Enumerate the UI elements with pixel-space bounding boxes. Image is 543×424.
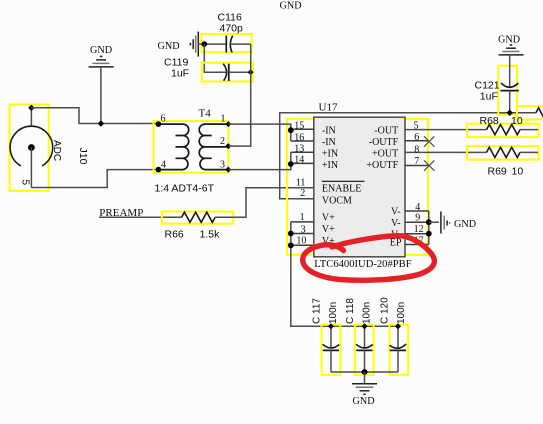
svg-text:12: 12 — [414, 224, 424, 235]
junction (pin 9 V-) — [426, 219, 432, 225]
svg-text:3: 3 — [301, 225, 306, 236]
svg-text:470p: 470p — [220, 23, 244, 35]
pin 7 (no connect) — [405, 165, 429, 167]
pin 9 (V-) — [405, 221, 429, 223]
capacitor C119 — [202, 63, 253, 82]
svg-text:5: 5 — [414, 121, 419, 132]
wire (J10 top to T4 pin 6) — [31, 108, 158, 124]
node (C118 top terminal diamond) — [362, 323, 368, 329]
svg-text:6: 6 — [161, 113, 166, 124]
svg-text:EP: EP — [390, 238, 402, 249]
wire (C118 top lead) — [364, 326, 366, 347]
resistor (partial, right edge on VOCM line) — [517, 106, 543, 119]
svg-text:GND: GND — [353, 396, 375, 407]
wire (caps right node down to T4 pin 2) — [228, 44, 250, 146]
wire (GND4 stem) — [364, 372, 366, 384]
svg-text:11: 11 — [296, 177, 306, 188]
resistor R66 — [162, 212, 233, 224]
svg-text:ADC: ADC — [51, 140, 62, 161]
wire (C117 top lead) — [330, 326, 332, 347]
svg-text:R66: R66 — [165, 229, 184, 241]
svg-text:VOCM: VOCM — [322, 196, 352, 207]
overline of ENABLE — [322, 180, 365, 182]
wire (bypass caps bottom bus) — [331, 371, 398, 373]
resistor R68 — [467, 124, 539, 137]
wire (C120 top lead) — [397, 326, 399, 347]
no-connect X pin 6 — [424, 136, 434, 146]
wire (C119 right plate out) — [229, 71, 251, 73]
svg-text:LTC6400IUD-20#PBF: LTC6400IUD-20#PBF — [314, 259, 411, 270]
svg-text:T4: T4 — [199, 108, 212, 120]
wire (V+ strap down to bypass caps) — [291, 222, 398, 326]
wire (C118 bottom lead) — [364, 350, 366, 372]
node (T4 pin 3 terminal) — [225, 167, 231, 173]
svg-text:10: 10 — [296, 235, 306, 246]
svg-text:-IN: -IN — [322, 125, 336, 136]
pin 5 (-OUT) wire to R68 — [405, 129, 487, 131]
svg-text:15: 15 — [294, 121, 304, 132]
pin 1 — [291, 221, 314, 223]
wire (VOCM net: C121 node across top and down to pin 2) — [280, 113, 536, 199]
svg-text:8: 8 — [414, 144, 419, 155]
svg-text:GND: GND — [158, 41, 180, 52]
wire (T4 pin 1 to -IN pins) — [228, 124, 290, 141]
primary winding — [158, 124, 188, 170]
capacitor C121 — [498, 55, 519, 115]
resistor R69 — [467, 146, 539, 159]
wire (J10 center pin down) — [30, 148, 32, 188]
svg-text:GND: GND — [498, 34, 520, 45]
wire (C120 bottom lead) — [397, 350, 399, 372]
wire (C117 bottom lead) — [330, 350, 332, 372]
junction (C121 to VOCM net) — [507, 110, 513, 116]
wire (PREAMP to R66) — [99, 216, 182, 218]
node (T4 pin 2 terminal) — [225, 143, 231, 149]
svg-text:-OUT: -OUT — [374, 125, 398, 136]
pin 4 (V-) — [405, 210, 429, 212]
junction (pin 10 V+) — [288, 242, 294, 248]
ground GND2 (left of C116) — [190, 32, 198, 57]
svg-text:1: 1 — [300, 212, 305, 223]
wire (J10 bottom to T4 pin 4) — [31, 170, 158, 188]
svg-text:+IN: +IN — [322, 148, 338, 159]
svg-text:ENABLE: ENABLE — [322, 184, 361, 195]
capacitor C120 — [389, 325, 408, 375]
svg-text:5: 5 — [20, 180, 31, 186]
svg-text:GND: GND — [280, 1, 302, 12]
wire (pin 9 to GND5) — [429, 221, 439, 223]
svg-text:C 118: C 118 — [345, 298, 356, 324]
svg-text:GND: GND — [90, 45, 112, 56]
wire (T4 pin 3 to +IN pins) — [228, 152, 290, 169]
junction (GND1 stem meets wire) — [98, 120, 104, 126]
svg-text:1.5k: 1.5k — [200, 229, 221, 241]
connector J10 — [10, 105, 90, 191]
wire (C116 right plate out) — [230, 43, 251, 45]
pin 13 — [291, 151, 314, 153]
wire (V- vertical strap) — [428, 211, 430, 245]
svg-text:9: 9 — [415, 213, 420, 224]
pin 15 — [291, 128, 314, 130]
svg-text:GND: GND — [454, 219, 476, 230]
svg-text:+OUTF: +OUTF — [366, 160, 398, 171]
pin 17 (EP) — [405, 244, 429, 246]
wire (GND1 stem down to J10 top net) — [100, 67, 102, 124]
pin 10 — [291, 244, 314, 246]
ground GND1 (above J10 wire) — [89, 56, 114, 67]
junction (C116/C119 left node) — [202, 41, 208, 47]
annotation red ellipse — [303, 236, 435, 281]
junction (T4 pin 6) — [156, 121, 162, 127]
junction (pin 12 V-) — [426, 231, 432, 237]
node (C117 top terminal diamond) — [328, 323, 334, 329]
svg-text:4: 4 — [415, 202, 420, 213]
node (C119 right terminal diamond) — [248, 69, 254, 75]
svg-text:2: 2 — [300, 188, 305, 199]
pin 3 — [291, 233, 314, 235]
pin 16 — [291, 140, 314, 142]
wire (R69 right lead) — [520, 151, 538, 153]
wire (left strap C116 to C119) — [204, 44, 226, 72]
svg-text:V-: V- — [391, 207, 401, 218]
junction (pin15/16 strap) — [288, 127, 294, 133]
pin 14 — [291, 162, 314, 164]
svg-text:100n: 100n — [396, 302, 407, 324]
svg-text:6: 6 — [414, 132, 419, 143]
pin 6 (no connect) — [405, 140, 429, 142]
capacitor C118 — [355, 325, 374, 375]
svg-text:+OUT: +OUT — [372, 148, 398, 159]
pin 12 (V-) — [405, 233, 429, 235]
svg-text:-OUTF: -OUTF — [369, 137, 399, 148]
node (J10 top terminal diamond) — [28, 105, 34, 111]
svg-text:14: 14 — [294, 155, 304, 166]
svg-text:1:4 ADT4-6T: 1:4 ADT4-6T — [155, 183, 215, 195]
capacitor C117 — [322, 325, 341, 375]
pin names inside U17 — [322, 125, 402, 248]
ground GND5 (right of pin 9) — [441, 212, 450, 234]
node (C120 top terminal diamond) — [395, 323, 401, 329]
wire (GND3 stem to C121 top plate) — [509, 55, 511, 87]
wire (R66 to ENABLE pin 11) — [233, 188, 313, 218]
svg-text:-IN: -IN — [322, 137, 336, 148]
svg-text:R69: R69 — [488, 166, 507, 178]
wire (J10 pin stem top) — [30, 108, 32, 127]
ground GND3 (top right above C121) — [499, 45, 524, 55]
svg-text:2: 2 — [220, 136, 225, 147]
wire (C121 bottom plate to VOCM wire) — [509, 91, 511, 113]
svg-text:1: 1 — [221, 113, 226, 124]
svg-text:16: 16 — [294, 132, 304, 143]
svg-text:V+: V+ — [322, 213, 335, 224]
svg-text:10: 10 — [512, 166, 524, 178]
svg-text:V+: V+ — [322, 224, 335, 235]
svg-text:C 120: C 120 — [380, 297, 391, 324]
junction (pin 3 V+) — [288, 231, 294, 237]
svg-text:1uF: 1uF — [171, 67, 189, 79]
svg-text:100n: 100n — [362, 302, 373, 324]
svg-text:100n: 100n — [328, 302, 339, 324]
svg-text:10: 10 — [511, 115, 523, 127]
wire (R68 right lead) — [520, 129, 538, 131]
transformer T4 — [154, 108, 232, 173]
ground GND4 (below C118) — [352, 384, 377, 395]
wire (R66 right lead) — [215, 216, 233, 218]
secondary winding — [199, 124, 228, 170]
junction (pin13/14 strap) — [288, 161, 294, 167]
svg-text:C 117: C 117 — [312, 298, 323, 324]
svg-text:V-: V- — [391, 218, 401, 229]
svg-text:U17: U17 — [319, 102, 338, 114]
svg-text:J10: J10 — [77, 148, 89, 165]
capacitor C116 — [198, 34, 251, 53]
junction (C118 bottom to GND) — [362, 369, 368, 375]
pin 8 (+OUT) wire to R69 — [405, 151, 487, 153]
svg-text:7: 7 — [414, 156, 419, 167]
svg-text:1uF: 1uF — [480, 91, 498, 103]
svg-text:+IN: +IN — [322, 160, 338, 171]
node (T4 pin 1 terminal) — [225, 121, 231, 127]
svg-text:R68: R68 — [480, 115, 499, 127]
junction (T4 pin 4) — [156, 167, 162, 173]
svg-text:13: 13 — [294, 144, 304, 155]
no-connect X pin 7 — [424, 160, 434, 170]
wire (GND2 to C116 left plate) — [198, 43, 226, 45]
